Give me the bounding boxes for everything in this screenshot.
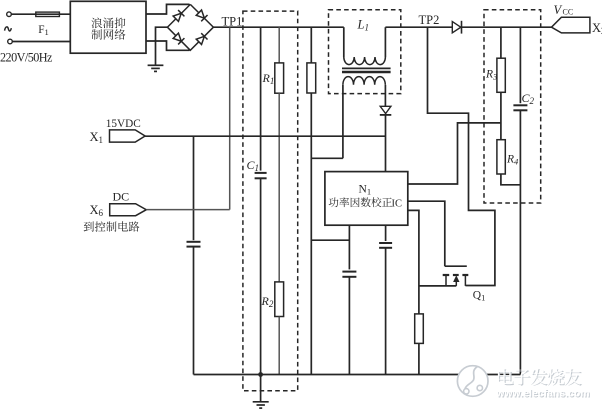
wire R3 to R4 — [500, 92, 502, 139]
output diode — [452, 21, 461, 34]
label X6 — [90, 203, 104, 218]
wire N1 bottom pin down (Vcc bypass) — [385, 225, 387, 241]
wire top terminal to surge box — [11, 13, 70, 15]
surge suppression network box — [70, 1, 146, 53]
resistor R1 branch wire from bus — [278, 27, 280, 63]
bridge diode lower-left — [173, 33, 185, 45]
wire divider resistor down to bottom bus — [310, 93, 312, 375]
wire top bus: bridge to L1 primary — [213, 26, 343, 28]
wire R2 to bottom bus — [278, 317, 280, 375]
resistor R1 — [275, 63, 284, 93]
ground (bridge) — [148, 65, 164, 71]
transformer primary winding — [344, 57, 386, 65]
transistor Q1 (MOSFET) — [443, 266, 469, 286]
dashed box: inductor L1 — [329, 10, 401, 94]
wire Q1 source to sense resistor junction — [419, 285, 456, 287]
wire capacitor C1 branch from bus — [260, 27, 262, 170]
wire TP2 junction drain route — [428, 27, 495, 285]
label 220V/50Hz — [0, 50, 53, 64]
label F1 — [38, 24, 49, 37]
aux diode (winding to Vcc rail) — [380, 106, 392, 115]
label 功率因数校正IC — [329, 197, 402, 209]
wire N1 sense pin to source resistor — [408, 210, 419, 314]
fuse F1 — [36, 12, 60, 16]
wire C2 branch from bus — [519, 27, 521, 103]
label X2 — [592, 21, 602, 36]
input terminal (bottom, AC neutral) — [8, 39, 13, 44]
bridge rectifier diamond — [167, 4, 213, 50]
svg-text:15VDC: 15VDC — [106, 118, 141, 130]
resistor R2 — [275, 282, 284, 317]
wire bottom terminal to surge box — [12, 41, 70, 43]
label C2 — [522, 91, 535, 106]
connector X2 (Vcc output) — [552, 17, 590, 33]
node TP2 label — [419, 13, 440, 27]
wire branch down from 15VDC rail — [193, 136, 195, 240]
wire R4 bottom to C2 leg — [501, 174, 521, 185]
wire N1 gate pin to Q1 gate — [408, 201, 445, 266]
label 浪涌抑制网络 — [91, 18, 125, 40]
wire X6 to TP1 drop — [146, 209, 229, 211]
bridge diode upper-right — [196, 10, 208, 22]
label N1 — [359, 184, 372, 197]
wire N1 bottom-left pin down — [348, 225, 350, 269]
capacitor C1 — [255, 173, 267, 178]
bottom ground bus — [194, 374, 521, 376]
wire top bus: diode to Vcc connector — [461, 26, 552, 28]
capacitor C2 — [513, 105, 527, 110]
bridge diode upper-left — [173, 10, 185, 22]
resistor R3 — [497, 58, 505, 92]
label Vcc — [554, 3, 574, 17]
wire TP1 junction down to X6 wire — [229, 27, 231, 209]
svg-text:220V/50Hz: 220V/50Hz — [0, 50, 53, 64]
svg-text:CC: CC — [563, 8, 574, 17]
wire secondary left end down — [342, 85, 344, 159]
IC N1 box (PFC controller) — [325, 172, 408, 226]
svg-text:TP1: TP1 — [222, 14, 243, 28]
label X1 — [90, 130, 104, 145]
label R2 — [261, 294, 274, 309]
bridge diode lower-right — [196, 33, 208, 45]
label R3 — [485, 69, 497, 82]
connector X1 (15VDC input) — [110, 130, 146, 142]
input terminal (top, AC line) — [7, 12, 12, 17]
resistor R4 — [497, 140, 505, 174]
label Q1 — [473, 290, 486, 303]
wire C2 down to bottom bus end — [519, 110, 521, 374]
label R1 — [262, 71, 275, 86]
svg-text:X2: X2 — [592, 21, 602, 36]
resistor branch (divider) from bus — [310, 27, 312, 63]
svg-text:TP2: TP2 — [419, 13, 440, 27]
resistor (current sense) — [415, 314, 424, 344]
label DC — [113, 190, 130, 204]
wire capacitor to bottom bus — [385, 248, 387, 375]
wire aux diode to N1 top pin — [385, 115, 387, 172]
svg-text:www.elecfans.com: www.elecfans.com — [496, 389, 590, 400]
wire capacitor to bottom bus — [348, 277, 350, 375]
dashed box: input filter / divider network — [243, 11, 298, 391]
wire branch at divider to capacitor leg — [311, 239, 349, 241]
label ~ (AC) — [5, 27, 12, 31]
wire primary right up to bus — [384, 27, 386, 57]
wire surge box to bridge top — [146, 4, 190, 14]
node TP1 label — [222, 14, 243, 28]
svg-text:DC: DC — [113, 190, 130, 204]
label 到控制电路 — [84, 221, 140, 231]
capacitor (control supply) — [187, 242, 201, 247]
wire top bus: L1 to output diode — [385, 26, 452, 28]
wire R3 branch from bus — [500, 27, 502, 58]
wire C1 to bottom bus — [260, 178, 262, 374]
connector X6 (DC to control circuit) — [110, 204, 147, 216]
wire 15VDC rail — [145, 135, 385, 137]
label L1 — [357, 17, 369, 32]
wire junction to ground symbol — [260, 375, 262, 402]
capacitor (N1 compensation) — [342, 272, 356, 277]
wire bridge left corner to ground — [156, 27, 168, 65]
label 15VDC — [106, 118, 141, 130]
label R4 — [506, 154, 519, 167]
ground (main) — [253, 402, 269, 408]
junction dot on ground bus — [258, 372, 263, 377]
label C1 — [247, 158, 260, 173]
dashed box: output divider network — [484, 10, 541, 203]
wire feedback tap to N1 — [408, 123, 501, 184]
wire capacitor to bottom bus — [193, 247, 195, 375]
capacitor (Vcc bypass) — [379, 243, 392, 248]
transformer secondary winding — [343, 77, 385, 85]
wire secondary right end to aux diode — [384, 85, 386, 107]
wire secondary left route to divider line — [311, 157, 343, 159]
wire bus into primary left — [343, 27, 345, 57]
resistor (divider, unlabeled) — [307, 63, 316, 93]
transformer core — [342, 68, 391, 72]
wire sense resistor to bottom bus — [418, 343, 420, 374]
wire surge box to bridge bottom — [146, 41, 190, 50]
wire R1 to R2 — [278, 93, 280, 282]
svg-text:IC: IC — [392, 198, 403, 209]
